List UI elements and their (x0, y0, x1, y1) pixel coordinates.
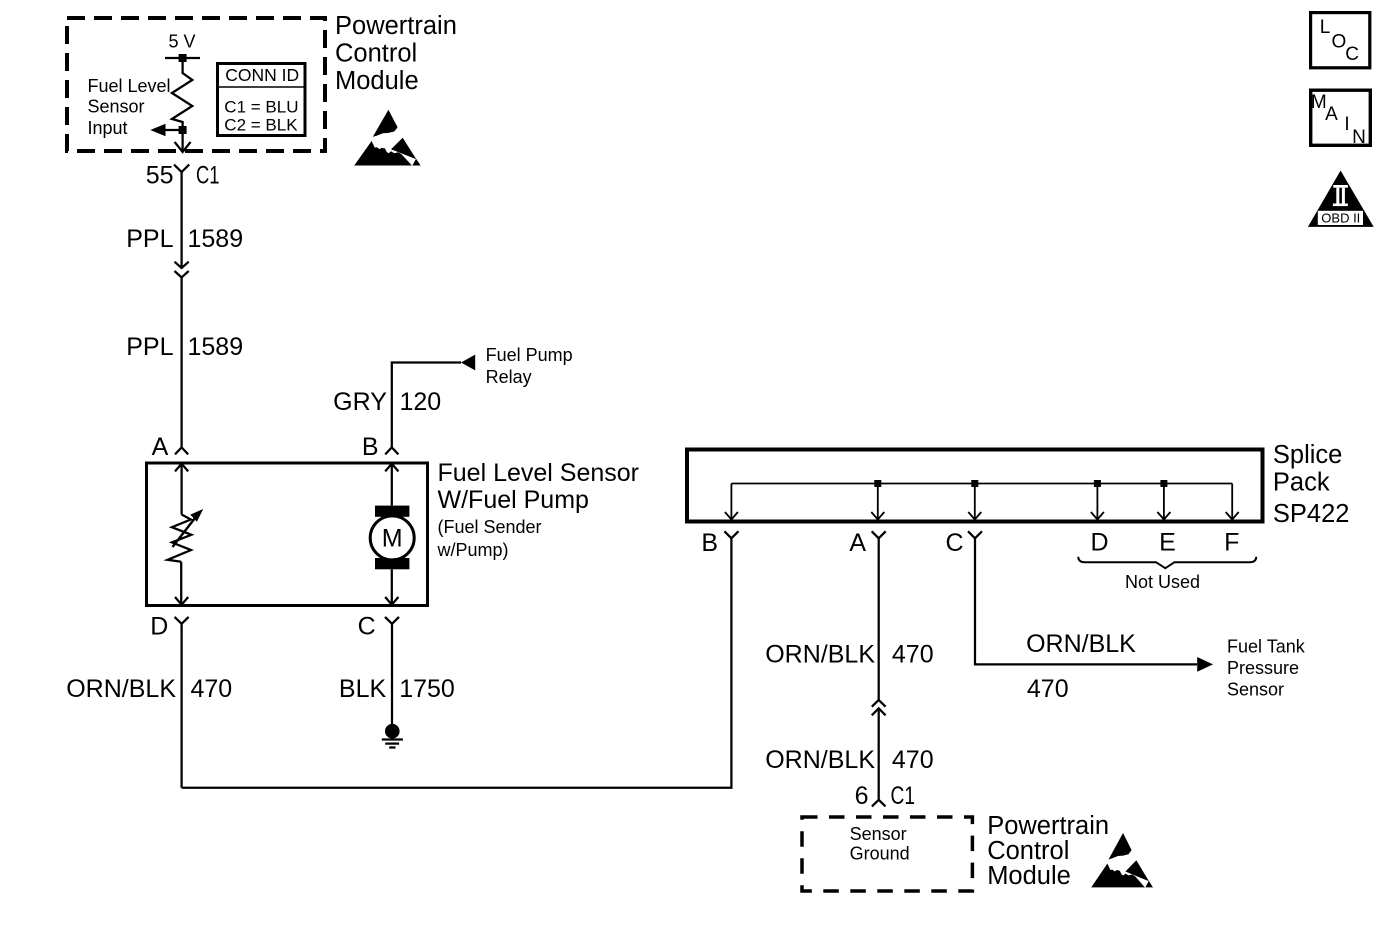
splice pin F label (1224, 529, 1239, 557)
svg-text:Sensor: Sensor (1227, 680, 1284, 700)
ORN/BLK 470 label left (66, 675, 232, 703)
svg-text:6: 6 (855, 782, 869, 810)
svg-text:Pressure: Pressure (1227, 658, 1299, 678)
Powertrain Control Module label (top) (335, 12, 457, 95)
svg-text:w/Pump): w/Pump) (437, 540, 509, 560)
wire PPL 1589 upper (180, 172, 182, 268)
splice drop E with arrow (1157, 484, 1170, 520)
splice drop D with arrow (1091, 484, 1104, 520)
svg-text:120: 120 (400, 388, 442, 416)
splice drop F with arrow (1226, 484, 1239, 520)
svg-text:B: B (701, 529, 718, 557)
ESD symbol (bottom) (1091, 833, 1153, 887)
splice pin D label (1090, 529, 1108, 557)
CONN ID table (216, 64, 306, 136)
fuel pump motor M (370, 506, 414, 570)
splice pack SP422 box (687, 450, 1263, 522)
svg-text:Control: Control (335, 40, 417, 68)
svg-text:N: N (1352, 127, 1366, 148)
svg-text:C1: C1 (891, 782, 916, 810)
svg-text:D: D (1090, 529, 1108, 557)
svg-text:E: E (1159, 529, 1176, 557)
wire to pin 55 with arrowhead (175, 134, 191, 152)
LOC symbol box (1311, 13, 1370, 68)
svg-text:Ground: Ground (850, 844, 910, 864)
svg-text:PPL: PPL (126, 225, 173, 253)
svg-text:1589: 1589 (188, 333, 244, 361)
svg-text:Fuel Level Sensor: Fuel Level Sensor (438, 459, 640, 487)
svg-text:SP422: SP422 (1273, 500, 1350, 528)
svg-text:OBD II: OBD II (1321, 211, 1360, 226)
svg-text:A: A (1325, 104, 1338, 125)
junction dot A on bus (874, 480, 881, 487)
PCM top dashed box (67, 18, 325, 151)
PPL 1589 label upper (126, 225, 243, 253)
connector pin A (175, 447, 188, 454)
svg-text:Module: Module (987, 862, 1071, 890)
wire ORN/BLK 470 from pin D (180, 624, 182, 788)
junction dot at sensor input node (179, 126, 187, 134)
svg-text:F: F (1224, 529, 1239, 557)
svg-text:A: A (849, 529, 866, 557)
Not Used label (1125, 572, 1200, 592)
pin A label (152, 433, 169, 461)
ORN/BLK 470 label upper right (765, 640, 933, 668)
internal wire motor to pin C with down arrow (385, 569, 398, 604)
svg-text:D: D (150, 613, 168, 641)
svg-text:Powertrain: Powertrain (335, 12, 457, 40)
svg-text:Sensor: Sensor (88, 96, 145, 116)
junction dot at 5V node (179, 54, 187, 62)
inline connector on ORN/BLK wire (872, 700, 886, 715)
wire GRY 120 to fuel pump relay (392, 363, 461, 448)
svg-text:GRY: GRY (333, 388, 387, 416)
OBD II symbol (1308, 171, 1374, 227)
connector pin C below splice (968, 531, 982, 538)
inline connector on PPL wire (175, 262, 189, 278)
svg-text:L: L (1320, 17, 1331, 38)
pin B label (362, 433, 379, 461)
Fuel Level Sensor W/Fuel Pump label (437, 459, 640, 560)
junction dot C on bus (971, 480, 978, 487)
Fuel Tank Pressure Sensor label (1227, 637, 1306, 700)
svg-text:Pack: Pack (1273, 469, 1330, 497)
svg-text:C: C (945, 529, 963, 557)
connector pin D below box (175, 617, 189, 624)
svg-text:ORN/BLK: ORN/BLK (765, 640, 875, 668)
Sensor Ground label (850, 824, 910, 864)
splice bus wire (731, 483, 1232, 485)
pin 55 label (146, 162, 174, 190)
svg-text:Fuel Level: Fuel Level (88, 76, 171, 96)
pin 6 label (855, 782, 869, 810)
wire BLK 1750 from pin C (391, 624, 393, 724)
svg-text:470: 470 (191, 675, 233, 703)
wire ORN/BLK 470 from splice A (878, 538, 880, 700)
svg-text:Splice: Splice (1273, 441, 1342, 469)
svg-text:(Fuel Sender: (Fuel Sender (438, 517, 542, 537)
not used brace (1078, 557, 1256, 569)
Splice Pack SP422 label (1273, 441, 1350, 528)
arrow to fuel tank pressure sensor (1197, 657, 1213, 672)
svg-text:1750: 1750 (399, 675, 455, 703)
connector pin C below box (385, 617, 399, 624)
ORN/BLK 470 label lower right (765, 746, 933, 774)
connector pin B (385, 447, 398, 454)
svg-text:470: 470 (892, 746, 934, 774)
fuel level sensor input arrow (150, 124, 182, 136)
svg-text:470: 470 (1027, 675, 1069, 703)
variable resistor (fuel level sender) (168, 509, 204, 562)
ESD symbol (top) (354, 110, 420, 166)
sensor ground dashed box (802, 817, 972, 891)
svg-text:A: A (152, 433, 169, 461)
svg-text:Module: Module (335, 67, 419, 95)
svg-text:Not Used: Not Used (1125, 572, 1200, 592)
splice drop B with arrow (725, 484, 738, 520)
GRY 120 label (333, 388, 441, 416)
resistor (fuel level sensor input pull-up) (172, 58, 192, 126)
svg-text:C: C (1345, 44, 1359, 65)
connector pin B below splice (724, 531, 738, 538)
wire PPL 1589 lower (180, 277, 182, 447)
connector C1 label bottom (891, 782, 916, 810)
wire bottom run to splice pack (182, 538, 732, 787)
svg-text:C1: C1 (196, 162, 220, 190)
Fuel Level Sensor Input label (88, 76, 171, 138)
PPL 1589 label lower (126, 333, 243, 361)
svg-text:W/Fuel Pump: W/Fuel Pump (438, 486, 589, 514)
svg-text:55: 55 (146, 162, 174, 190)
wire ORN/BLK 470 to PCM pin 6 (878, 708, 880, 800)
connector pin A below splice (872, 531, 886, 538)
fuel level sensor box (147, 463, 428, 606)
470 label right (1027, 675, 1069, 703)
MAIN symbol box (1311, 90, 1371, 148)
svg-text:C2 = BLK: C2 = BLK (224, 116, 298, 135)
svg-text:Sensor: Sensor (850, 824, 907, 844)
junction dot E on bus (1160, 480, 1167, 487)
svg-text:PPL: PPL (126, 333, 173, 361)
Powertrain Control Module label (bottom) (987, 812, 1109, 890)
wire ORN/BLK 470 from splice C to fuel tank pressure sensor (975, 538, 1197, 664)
pin C label (358, 613, 376, 641)
BLK 1750 label (339, 675, 455, 703)
svg-text:I: I (1344, 114, 1349, 135)
svg-text:ORN/BLK: ORN/BLK (66, 675, 176, 703)
ground G404 (382, 724, 403, 748)
5V supply line (165, 57, 200, 59)
ORN/BLK label right (1026, 630, 1136, 658)
junction dot D on bus (1094, 480, 1101, 487)
svg-text:470: 470 (892, 640, 934, 668)
svg-text:1589: 1589 (188, 225, 244, 253)
svg-text:5 V: 5 V (169, 32, 196, 52)
svg-text:BLK: BLK (339, 675, 387, 703)
Fuel Pump Relay label (486, 345, 573, 387)
svg-text:Input: Input (88, 118, 128, 138)
svg-text:Control: Control (987, 837, 1069, 865)
connector 55 C1 (174, 165, 189, 173)
svg-text:C1 = BLU: C1 = BLU (224, 98, 298, 117)
connector pin 6 C1 (872, 800, 886, 807)
pin D label (150, 613, 168, 641)
splice drop A with arrow (871, 484, 884, 520)
splice drop C with arrow (968, 484, 981, 520)
svg-text:B: B (362, 433, 379, 461)
splice pin C label (945, 529, 963, 557)
internal wire pin B to motor with up arrow (385, 464, 398, 506)
internal wire pin D with down arrow (175, 562, 188, 605)
svg-text:Relay: Relay (486, 367, 532, 387)
svg-text:ORN/BLK: ORN/BLK (1026, 630, 1136, 658)
svg-text:O: O (1332, 31, 1347, 52)
splice pin B label (701, 529, 718, 557)
svg-text:CONN ID: CONN ID (225, 65, 299, 85)
svg-text:Fuel Pump: Fuel Pump (486, 345, 573, 365)
5 V label (169, 32, 196, 52)
arrow to fuel pump relay (461, 355, 475, 371)
internal wire pin A with up arrow (175, 464, 188, 515)
svg-text:M: M (382, 525, 403, 553)
splice pin E label (1159, 529, 1176, 557)
splice pin A label (849, 529, 866, 557)
svg-text:Powertrain: Powertrain (987, 812, 1109, 840)
connector C1 label (196, 162, 220, 190)
svg-text:C: C (358, 613, 376, 641)
svg-text:ORN/BLK: ORN/BLK (765, 746, 875, 774)
svg-text:Fuel Tank: Fuel Tank (1227, 637, 1306, 657)
